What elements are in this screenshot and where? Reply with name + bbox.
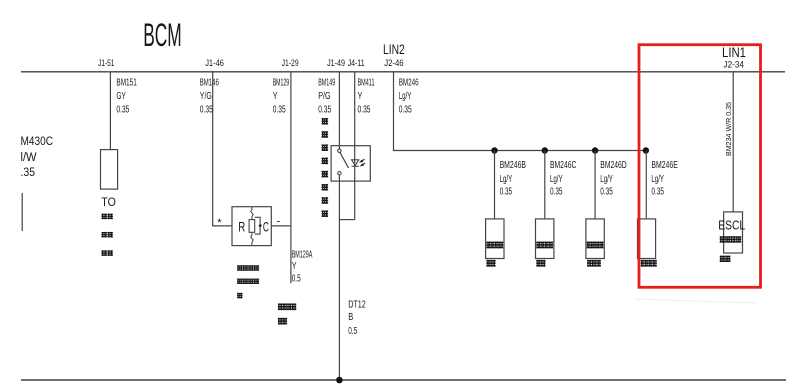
net label M430C l/W .35 (cut off at left edge) bbox=[21, 136, 54, 179]
wire BM149 from J1-49 bbox=[338, 72, 340, 149]
wire stub at left edge bbox=[21, 193, 23, 231]
svg-text:LIN1: LIN1 bbox=[722, 45, 746, 60]
svg-text:Y: Y bbox=[273, 91, 278, 102]
svg-text:B: B bbox=[348, 312, 353, 323]
svg-text:.35: .35 bbox=[21, 167, 36, 179]
svg-text:BM151: BM151 bbox=[116, 78, 137, 89]
ground bus wire (bottom) bbox=[21, 379, 786, 381]
svg-text:BM411: BM411 bbox=[358, 78, 375, 89]
wire BM146 from J1-46 bbox=[213, 72, 232, 226]
connector (wireless charging) bbox=[638, 219, 656, 259]
svg-text:Y: Y bbox=[358, 91, 363, 102]
wire label BM246C Lg/Y 0.35 bbox=[550, 160, 576, 197]
svg-text:P/G: P/G bbox=[318, 91, 331, 102]
wire BM129 from J1-29 bbox=[290, 72, 292, 283]
BCM connector bus wire (top) bbox=[21, 71, 785, 73]
connector TO (wireless charging module) bbox=[101, 150, 118, 190]
svg-text:J4-11: J4-11 bbox=[348, 58, 365, 68]
switch S1 (central lock switch) bbox=[331, 146, 370, 181]
svg-text:BM246: BM246 bbox=[399, 78, 419, 89]
terminal circle (top) bbox=[338, 149, 341, 152]
svg-text:Lg/Y: Lg/Y bbox=[500, 174, 513, 185]
svg-text:BM146: BM146 bbox=[200, 78, 219, 89]
wire label BM246E Lg/Y 0.35 bbox=[651, 160, 678, 197]
label 柱锁 bbox=[720, 256, 731, 262]
svg-text:0.35: 0.35 bbox=[358, 105, 371, 116]
light arrows bbox=[361, 159, 365, 161]
wire label BM146 Y/G 0.35 bbox=[200, 78, 219, 116]
wire BM411 from J4-11 bbox=[354, 72, 356, 220]
svg-text:J2-46: J2-46 bbox=[384, 58, 403, 68]
svg-text:TO: TO bbox=[101, 195, 116, 209]
wire BM246 LIN2 branch bbox=[394, 72, 646, 151]
wire label BM129 Y 0.35 bbox=[273, 78, 290, 116]
label 控制器 bbox=[587, 260, 601, 267]
capacitor branch bbox=[255, 217, 260, 234]
svg-text:0.35: 0.35 bbox=[318, 105, 331, 116]
svg-text:Lg/Y: Lg/Y bbox=[651, 174, 664, 185]
svg-text:DT12: DT12 bbox=[348, 300, 366, 311]
svg-text:0.35: 0.35 bbox=[273, 105, 286, 116]
svg-text:C: C bbox=[263, 219, 269, 235]
svg-text:J1-49: J1-49 bbox=[327, 58, 345, 68]
wire BM246D bbox=[594, 151, 596, 219]
LED cathode bar bbox=[352, 165, 359, 167]
wire label BM149 P/G 0.35 bbox=[318, 78, 335, 116]
wire from switch to ground bbox=[338, 175, 340, 380]
connector (anti-pinch module) bbox=[536, 219, 554, 259]
wire BM246C bbox=[544, 151, 546, 219]
svg-text:Y/G: Y/G bbox=[200, 91, 212, 102]
svg-text:0.35: 0.35 bbox=[600, 187, 613, 198]
svg-text:BM129A: BM129A bbox=[292, 250, 313, 261]
svg-text:BM246C: BM246C bbox=[550, 160, 576, 171]
svg-text:l/W: l/W bbox=[21, 152, 37, 164]
highlight box (red) bbox=[639, 45, 761, 288]
svg-text:BM246E: BM246E bbox=[651, 160, 678, 171]
svg-text:-: - bbox=[277, 216, 281, 228]
svg-text:Lg/Y: Lg/Y bbox=[550, 174, 563, 185]
indicator LED triangle bbox=[352, 160, 359, 166]
label 主驾座椅重力传感器 bbox=[237, 265, 259, 298]
wire label DT12 B 0.5 bbox=[348, 300, 366, 338]
wire BM246B bbox=[494, 151, 496, 219]
lead with strain squiggle (top) bbox=[251, 207, 254, 220]
svg-text:0.35: 0.35 bbox=[651, 187, 664, 198]
svg-text:0.5: 0.5 bbox=[292, 273, 301, 284]
switch blade bbox=[340, 152, 349, 168]
svg-text:GY: GY bbox=[116, 91, 126, 102]
svg-text:Y: Y bbox=[292, 261, 297, 272]
svg-text:*: * bbox=[217, 217, 222, 229]
svg-text:Lg/Y: Lg/Y bbox=[399, 91, 412, 102]
wire label BM246B Lg/Y 0.35 bbox=[500, 160, 527, 197]
svg-text:BM149: BM149 bbox=[318, 78, 335, 89]
sensor R-C box (seat gravity sensor) bbox=[232, 207, 271, 246]
wire BM234 from J2-34 bbox=[732, 72, 734, 212]
svg-text:M430C: M430C bbox=[21, 136, 54, 148]
wire label BM246D Lg/Y 0.35 bbox=[600, 160, 626, 197]
label 至(destination) bbox=[278, 303, 296, 324]
junction node BM246C bbox=[542, 147, 548, 153]
junction node BM246D bbox=[592, 147, 598, 153]
label 模块 bbox=[536, 260, 545, 267]
svg-text:J1-51: J1-51 bbox=[98, 58, 114, 68]
label 中控解锁闭锁开关 (vertical) bbox=[322, 118, 329, 217]
svg-text:0.5: 0.5 bbox=[348, 326, 357, 337]
svg-text:0.35: 0.35 bbox=[500, 187, 513, 198]
label 车窗防夹 bbox=[536, 242, 553, 249]
label 电动天窗 bbox=[587, 242, 604, 249]
svg-text:BM246D: BM246D bbox=[600, 160, 626, 171]
wire label BM129A Y 0.5 bbox=[292, 250, 313, 285]
faint artifact line bbox=[636, 299, 757, 303]
label 无线充电 bbox=[641, 260, 657, 267]
svg-text:BCM: BCM bbox=[143, 17, 182, 53]
svg-text:Lg/Y: Lg/Y bbox=[600, 174, 613, 185]
svg-text:J1-46: J1-46 bbox=[205, 58, 224, 68]
junction node BM246E bbox=[643, 147, 649, 153]
svg-text:BM246B: BM246B bbox=[500, 160, 527, 171]
wire label BM246 Lg/Y 0.35 bbox=[399, 78, 419, 116]
connector (switch load 1) bbox=[486, 219, 504, 259]
svg-text:J1-29: J1-29 bbox=[282, 58, 299, 68]
connector (sunroof controller) bbox=[586, 219, 604, 259]
wire label BM411 Y 0.35 bbox=[358, 78, 375, 116]
svg-text:J2-34: J2-34 bbox=[724, 60, 744, 70]
svg-text:0.35: 0.35 bbox=[399, 105, 412, 116]
svg-text:0.35: 0.35 bbox=[550, 187, 563, 198]
svg-text:LIN2: LIN2 bbox=[383, 42, 405, 57]
label 开关 bbox=[486, 260, 495, 267]
lead with strain squiggle (bottom) bbox=[251, 232, 254, 245]
svg-text:ESCL: ESCL bbox=[718, 218, 745, 233]
wire label BM151 GY 0.35 bbox=[116, 78, 137, 116]
wire joining LED branch bbox=[339, 219, 354, 221]
wire BM151 from J1-51 bbox=[109, 72, 111, 150]
wire to J1-29 net bbox=[271, 225, 291, 227]
resistor element bbox=[249, 220, 255, 233]
junction node BM246B bbox=[491, 147, 497, 153]
label 无线充电模块 bbox=[102, 214, 113, 256]
label 电动管柱 bbox=[486, 242, 503, 249]
node dot bbox=[259, 224, 262, 227]
label 电子转向 bbox=[720, 236, 742, 242]
terminal circle (bottom) bbox=[338, 172, 341, 175]
svg-text:0.35: 0.35 bbox=[200, 105, 213, 116]
ground junction bbox=[336, 377, 343, 384]
module ESCL bbox=[724, 212, 743, 253]
svg-text:BM234 W/R 0.35: BM234 W/R 0.35 bbox=[724, 102, 733, 156]
svg-text:0.35: 0.35 bbox=[116, 105, 129, 116]
svg-text:R: R bbox=[238, 219, 245, 235]
svg-text:BM129: BM129 bbox=[273, 78, 290, 89]
wire BM246E bbox=[645, 151, 647, 219]
